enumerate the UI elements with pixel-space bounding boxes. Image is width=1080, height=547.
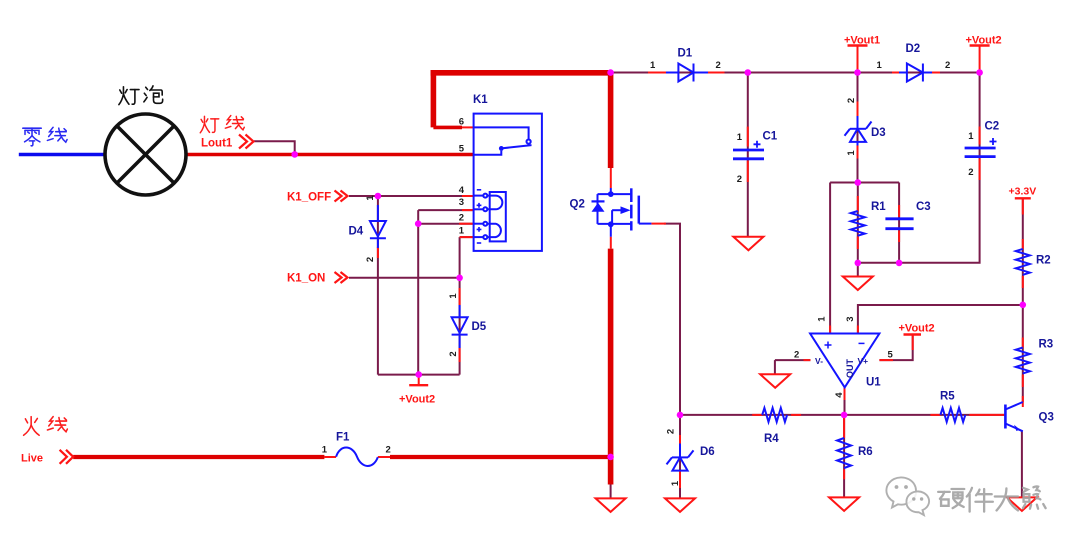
svg-text:C1: C1 <box>763 131 778 143</box>
svg-text:R2: R2 <box>1036 255 1051 267</box>
svg-text:F1: F1 <box>336 432 350 444</box>
svg-text:1: 1 <box>670 480 681 486</box>
svg-text:1: 1 <box>459 226 465 237</box>
svg-text:1: 1 <box>968 131 974 142</box>
svg-text:1: 1 <box>816 316 827 322</box>
svg-text:+Vout1: +Vout1 <box>844 35 880 47</box>
svg-text:D4: D4 <box>349 226 364 238</box>
svg-text:5: 5 <box>888 350 894 361</box>
svg-text:D5: D5 <box>472 321 487 333</box>
svg-text:2: 2 <box>386 445 391 456</box>
svg-text:3: 3 <box>459 197 464 208</box>
svg-text:3: 3 <box>845 316 856 321</box>
svg-text:2: 2 <box>945 60 950 71</box>
svg-text:+3.3V: +3.3V <box>1009 186 1037 198</box>
svg-text:D2: D2 <box>906 43 921 55</box>
svg-text:+Vout2: +Vout2 <box>899 323 935 335</box>
svg-text:1: 1 <box>650 60 656 71</box>
svg-text:2: 2 <box>459 212 464 223</box>
svg-text:K1: K1 <box>473 94 488 106</box>
svg-text:C3: C3 <box>916 201 931 213</box>
svg-text:2: 2 <box>365 257 376 262</box>
svg-text:2: 2 <box>716 60 721 71</box>
svg-text:R6: R6 <box>858 446 873 458</box>
svg-text:Live: Live <box>21 453 43 465</box>
svg-text:R5: R5 <box>940 391 955 403</box>
svg-text:2: 2 <box>794 350 799 361</box>
svg-text:Q2: Q2 <box>570 199 585 211</box>
svg-text:R3: R3 <box>1039 339 1054 351</box>
svg-text:K1_ON: K1_ON <box>287 273 325 285</box>
svg-text:+Vout2: +Vout2 <box>399 394 435 406</box>
svg-text:R4: R4 <box>764 433 779 445</box>
svg-text:1: 1 <box>737 132 743 143</box>
svg-text:Q3: Q3 <box>1039 412 1054 424</box>
svg-text:U1: U1 <box>866 377 881 389</box>
svg-text:R1: R1 <box>871 201 886 213</box>
svg-text:4: 4 <box>459 185 465 196</box>
svg-text:D1: D1 <box>678 48 693 60</box>
svg-text:2: 2 <box>737 174 742 185</box>
svg-text:1: 1 <box>846 150 857 156</box>
svg-text:1: 1 <box>322 445 328 456</box>
svg-text:4: 4 <box>834 392 845 398</box>
svg-text:V-: V- <box>815 356 823 366</box>
svg-text:+Vout2: +Vout2 <box>966 35 1002 47</box>
svg-text:D6: D6 <box>700 446 715 458</box>
svg-text:C2: C2 <box>985 121 1000 133</box>
svg-text:1: 1 <box>877 60 883 71</box>
svg-text:5: 5 <box>459 144 465 155</box>
svg-text:2: 2 <box>448 351 459 356</box>
svg-text:1: 1 <box>365 195 376 201</box>
svg-text:K1_OFF: K1_OFF <box>287 192 331 204</box>
svg-text:6: 6 <box>459 117 464 128</box>
svg-text:1: 1 <box>448 293 459 299</box>
svg-text:2: 2 <box>666 429 677 434</box>
svg-text:V+: V+ <box>858 356 869 366</box>
svg-text:Lout1: Lout1 <box>201 138 233 150</box>
svg-text:2: 2 <box>846 98 857 103</box>
svg-text:D3: D3 <box>871 127 886 139</box>
svg-text:2: 2 <box>968 167 973 178</box>
svg-text:OUT: OUT <box>845 359 855 379</box>
